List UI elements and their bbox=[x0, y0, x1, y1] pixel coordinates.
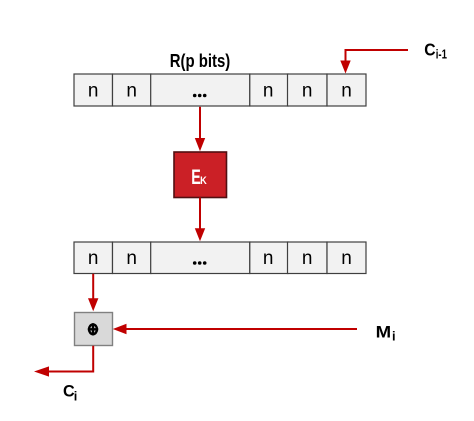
svg-text:n: n bbox=[88, 248, 99, 269]
svg-text:n: n bbox=[263, 248, 274, 269]
svg-text:n: n bbox=[88, 81, 99, 102]
svg-text:n: n bbox=[341, 81, 352, 102]
svg-text:i: i bbox=[392, 328, 396, 343]
svg-text:n: n bbox=[126, 81, 137, 102]
svg-text:M: M bbox=[376, 322, 392, 341]
svg-text:n: n bbox=[126, 248, 137, 269]
svg-text:n: n bbox=[341, 248, 352, 269]
svg-text:i: i bbox=[74, 389, 78, 404]
svg-text:K: K bbox=[200, 176, 207, 188]
svg-text:R(p bits): R(p bits) bbox=[170, 51, 231, 72]
svg-text:C: C bbox=[424, 40, 435, 60]
svg-text:n: n bbox=[302, 248, 313, 269]
svg-text:i-1: i-1 bbox=[436, 48, 447, 61]
svg-text:n: n bbox=[263, 81, 274, 102]
svg-text:n: n bbox=[302, 81, 313, 102]
